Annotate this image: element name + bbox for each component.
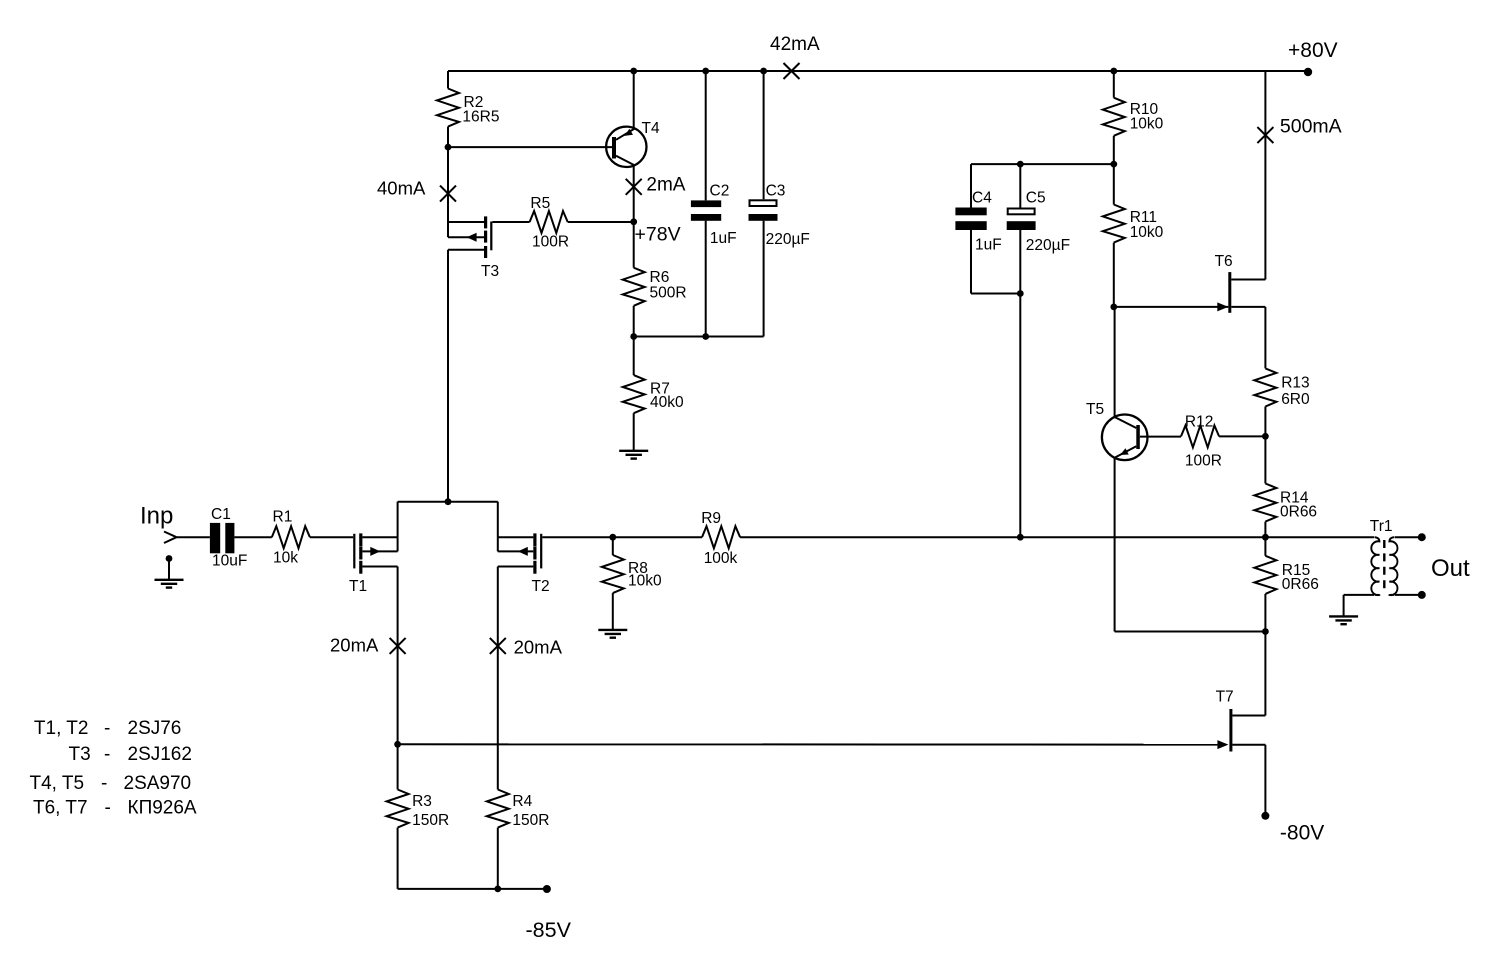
svg-text:C2: C2 (710, 183, 730, 200)
label +80V (1288, 39, 1338, 62)
resistor R8 (602, 555, 662, 593)
wire rail to C2 (705, 71, 707, 200)
ground R8 (598, 630, 627, 638)
current break 20mA right (490, 638, 506, 654)
output terminal top (1418, 533, 1426, 541)
wire R5 to +78V node (568, 221, 634, 223)
svg-text:500mA: 500mA (1280, 116, 1342, 138)
wire R2 to T3 source/body (447, 127, 449, 238)
wire Tr1 primary bottom to ground (1344, 595, 1374, 617)
wire C3 to bus (763, 221, 765, 337)
transformer Tr1 primary winding (1371, 537, 1379, 595)
svg-text:220µF: 220µF (766, 231, 810, 248)
svg-text:2mA: 2mA (646, 175, 685, 196)
svg-text:+78V: +78V (635, 224, 681, 246)
svg-text:T7: T7 (1216, 689, 1234, 706)
node junction R4 bottom (494, 886, 501, 893)
label 20mA left (330, 635, 379, 656)
resistor R13 (1254, 368, 1310, 408)
svg-text:R4: R4 (512, 793, 532, 810)
node junction T6 gate / T5 (1110, 304, 1117, 311)
svg-text:-: - (104, 744, 110, 765)
resistor R15 (1254, 556, 1318, 594)
wire node to R6 (633, 222, 635, 268)
svg-text:0R66: 0R66 (1280, 504, 1317, 521)
node junction R6/R7/C-bus (630, 333, 637, 340)
svg-text:100R: 100R (1185, 453, 1222, 470)
resistor R10 (1103, 98, 1164, 136)
wire R1 to T1 gate (310, 536, 353, 538)
wire rail to C3 (763, 71, 765, 199)
wire T1 source to tail (398, 502, 498, 538)
resistor R2 (437, 89, 499, 127)
node junction C2 on rail (702, 68, 709, 75)
svg-text:-: - (101, 773, 107, 794)
svg-text:T4: T4 (642, 120, 660, 137)
wire Tr1 secondary bottom (1395, 594, 1422, 596)
svg-text:100R: 100R (532, 234, 569, 251)
transistor T1 (349, 533, 398, 595)
transistor T3 (448, 216, 499, 280)
wire C5 top (1019, 164, 1021, 207)
svg-text:500R: 500R (650, 285, 687, 302)
ground Tr1 (1329, 616, 1358, 624)
node junction C2 bottom (702, 333, 709, 340)
svg-text:C4: C4 (972, 190, 992, 207)
ground R7 (619, 451, 648, 459)
transistor T2 (498, 533, 550, 595)
output terminal bottom (1418, 591, 1426, 599)
svg-text:C1: C1 (211, 506, 231, 523)
svg-text:0R66: 0R66 (1282, 576, 1319, 593)
wire C5 bottom (1019, 230, 1021, 294)
svg-text:10uF: 10uF (212, 553, 247, 570)
wire main line to R15 (1264, 537, 1266, 556)
node junction R15/T5/T7 (1262, 628, 1269, 635)
wire T6 source to R13 (1264, 307, 1266, 369)
label 500mA (1280, 116, 1342, 138)
wire T6-gate node down to T5 (1114, 307, 1116, 417)
wire R10 to C-node (1113, 136, 1115, 164)
svg-text:C3: C3 (766, 183, 786, 200)
svg-text:R9: R9 (701, 510, 721, 527)
svg-text:C5: C5 (1026, 190, 1046, 207)
wire node down to T7 drain (1232, 632, 1265, 716)
capacitor C5 polarized (1007, 190, 1070, 255)
transistor T5 (1086, 401, 1147, 460)
node junction R10/R11/C4C5 (1110, 161, 1117, 168)
svg-text:16R5: 16R5 (462, 109, 499, 126)
svg-text:T6, T7: T6, T7 (33, 797, 88, 818)
wire R3 bottom (397, 828, 399, 889)
wire T4 base (448, 146, 612, 148)
wire input to C1 (177, 536, 210, 538)
svg-text:T2: T2 (532, 578, 550, 595)
resistor R11 (1103, 205, 1164, 243)
wire R9 to transformer (740, 536, 1374, 538)
svg-text:10k0: 10k0 (1130, 116, 1164, 133)
wire C4 bottom (971, 230, 1020, 294)
wire C-node to main line (1019, 294, 1021, 538)
power terminal +80V (1304, 68, 1312, 76)
wire Tr1 secondary top (1395, 536, 1422, 538)
svg-text:T5: T5 (1086, 401, 1104, 418)
node junction R12/R13/R14 (1262, 433, 1269, 440)
svg-text:Tr1: Tr1 (1370, 518, 1393, 535)
svg-text:R3: R3 (412, 793, 432, 810)
node junction R8 tap (609, 534, 616, 541)
current break 2mA (626, 179, 642, 195)
wire R7 to ground (633, 413, 635, 451)
current break 42mA on rail (784, 63, 800, 79)
svg-text:T1, T2: T1, T2 (34, 718, 89, 739)
wire R15 to lower node (1264, 594, 1266, 632)
wire R8 top (612, 537, 614, 555)
svg-text:100k: 100k (704, 550, 738, 567)
svg-text:R1: R1 (273, 509, 293, 526)
label Out (1431, 555, 1470, 582)
node junction R14/R15 on main line (1262, 534, 1269, 541)
svg-text:T3: T3 (69, 744, 91, 765)
wire T1 source-body tie (397, 537, 399, 551)
transistor T4 (606, 120, 660, 167)
parts list line 2 (69, 744, 192, 765)
svg-text:Inp: Inp (140, 503, 173, 530)
svg-text:-: - (105, 797, 111, 818)
svg-text:T1: T1 (349, 578, 367, 595)
wire T7 gate from T1 drain (398, 743, 1218, 745)
current break 20mA left (390, 638, 406, 654)
resistor R1 (272, 509, 310, 567)
resistor R9 (701, 510, 740, 567)
svg-text:2SJ76: 2SJ76 (128, 718, 182, 739)
node junction C3 on rail (760, 68, 767, 75)
wire R6 to lower node (633, 306, 635, 337)
svg-text:6R0: 6R0 (1281, 391, 1310, 408)
label 20mA right (514, 637, 563, 658)
wire T5 base to R12 (1140, 436, 1181, 438)
input ground terminal (166, 555, 173, 580)
label -80V (1280, 821, 1324, 844)
svg-text:-85V: -85V (526, 918, 572, 942)
node junction T4-emitter on rail (630, 68, 637, 75)
wire R13 to R12 node (1264, 407, 1266, 437)
svg-text:1uF: 1uF (975, 237, 1002, 254)
capacitor C3 polarized (749, 183, 810, 249)
svg-text:T4, T5: T4, T5 (30, 773, 85, 794)
svg-text:150R: 150R (512, 812, 549, 829)
label Inp (140, 503, 173, 530)
power terminal -80V (1261, 812, 1269, 820)
label 42mA (770, 34, 820, 55)
parts list line 4 (33, 797, 197, 818)
svg-text:-: - (104, 718, 110, 739)
svg-text:R5: R5 (530, 195, 550, 212)
capacitor C4 (955, 190, 1001, 254)
svg-text:T6: T6 (1215, 253, 1233, 270)
node junction T1-drain / T7-gate (394, 741, 401, 748)
label 40mA (377, 177, 426, 198)
wire T2 drain down (497, 567, 499, 790)
resistor R7 (623, 375, 684, 413)
transistor T6 (1114, 253, 1266, 313)
svg-text:2SJ162: 2SJ162 (128, 744, 192, 765)
wire C2/C3 bottom bus (634, 336, 764, 338)
label Tr1 (1370, 518, 1393, 535)
label +78V (635, 224, 681, 246)
svg-text:R13: R13 (1281, 375, 1309, 392)
wire R11 to T6-gate node (1113, 243, 1115, 307)
resistor R14 (1254, 484, 1317, 522)
svg-text:-80V: -80V (1280, 821, 1324, 844)
wire T5 collector to right column (1115, 631, 1266, 633)
svg-text:40mA: 40mA (377, 177, 426, 198)
wire T3 gate to R5 (492, 221, 529, 223)
svg-text:40k0: 40k0 (650, 394, 684, 411)
svg-text:150R: 150R (412, 812, 449, 829)
svg-text:42mA: 42mA (770, 34, 820, 55)
resistor R5 (530, 195, 569, 251)
svg-text:R6: R6 (650, 269, 670, 286)
transformer Tr1 secondary winding (1389, 537, 1397, 595)
resistor R3 (387, 790, 450, 830)
resistor R6 (623, 268, 687, 306)
wire T7 source down (1264, 745, 1266, 816)
wire T4 collector down (633, 165, 635, 222)
wire C2 to bus (705, 221, 707, 337)
svg-text:20mA: 20mA (330, 635, 379, 656)
wire T2 gate to R8 node (542, 536, 613, 538)
node junction C5 top (1017, 161, 1024, 168)
wire rail to T4 emitter (633, 71, 635, 129)
svg-text:КП926А: КП926А (128, 797, 197, 818)
wire +80V top rail (448, 70, 1308, 72)
parts list line 3 (30, 773, 192, 794)
wire rail corner to R2 (447, 71, 449, 89)
node junction R10 on rail (1110, 68, 1117, 75)
svg-text:1uF: 1uF (710, 230, 737, 247)
capacitor C1 (210, 506, 247, 570)
svg-text:220µF: 220µF (1026, 237, 1070, 254)
svg-text:T3: T3 (481, 263, 499, 280)
wire R8 to ground (612, 593, 614, 630)
wire R12 to node (1219, 435, 1265, 437)
power terminal -85V (543, 885, 551, 893)
label -85V (526, 918, 572, 942)
svg-text:20mA: 20mA (514, 637, 563, 658)
svg-text:10k: 10k (273, 550, 298, 567)
wire T2 source-body tie (497, 537, 499, 551)
parts list line 1 (34, 718, 181, 739)
wire R4 bottom (497, 828, 499, 889)
svg-text:10k0: 10k0 (628, 573, 662, 590)
wire C4/C5 top bus (971, 163, 1114, 165)
svg-text:+80V: +80V (1288, 39, 1338, 62)
wire T3 drain to tail (448, 250, 484, 502)
wire R3 top (397, 744, 399, 789)
wire rail to R10 (1113, 71, 1115, 98)
transistor T7 (1216, 689, 1266, 752)
node junction C4/C5 bottom (1017, 290, 1024, 297)
svg-text:2SA970: 2SA970 (124, 773, 192, 794)
svg-text:10k0: 10k0 (1130, 224, 1164, 241)
current break 500mA (1257, 127, 1273, 143)
wire C1 to R1 (234, 536, 271, 538)
wire rail to T6 drain (1264, 71, 1266, 280)
wire R14 to main line (1264, 522, 1266, 538)
ground input (155, 580, 184, 588)
resistor R12 (1181, 414, 1222, 470)
svg-text:R12: R12 (1185, 414, 1213, 431)
wire -85V bottom bus (398, 888, 547, 890)
input connector arrow (164, 532, 177, 544)
capacitor C2 (691, 183, 737, 248)
label 2mA (646, 175, 685, 196)
wire T1 drain down (397, 567, 399, 745)
wire C4 top (970, 164, 972, 207)
current break 40mA (440, 186, 456, 202)
node +78V junction (630, 218, 637, 225)
wire node to R7 (633, 337, 635, 376)
node junction C5-bottom on main line (1017, 534, 1024, 541)
wire R11 (1113, 164, 1115, 204)
resistor R4 (487, 790, 550, 830)
svg-text:Out: Out (1431, 555, 1470, 582)
transformer Tr1 core (1383, 540, 1385, 592)
wire R8 node to R9 (613, 536, 702, 538)
node junction T4 base tap (445, 144, 452, 151)
node junction tail (445, 498, 452, 505)
wire node to R14 (1264, 436, 1266, 483)
wire T5 collector down (1114, 458, 1116, 632)
wire T2 source to tail (497, 502, 499, 538)
